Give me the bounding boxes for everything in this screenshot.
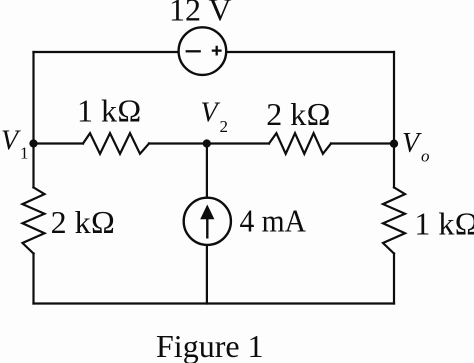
svg-text:2: 2 <box>220 117 229 136</box>
svg-text:o: o <box>421 146 430 165</box>
label Vo <box>402 128 430 165</box>
wire middle segment R2 to Vo <box>331 142 394 144</box>
node V2 <box>203 139 211 147</box>
voltage source VS1 12 V <box>179 27 227 75</box>
svg-text:12 V: 12 V <box>169 0 232 28</box>
resistor R3 2kOhm left vertical <box>23 187 45 253</box>
resistor R1 1kOhm horizontal <box>83 133 149 154</box>
label V2 <box>201 98 229 137</box>
wire left rail lower <box>32 254 34 304</box>
svg-text:4 mA: 4 mA <box>240 202 307 238</box>
svg-text:1 kΩ: 1 kΩ <box>414 205 474 241</box>
wire middle branch upper (V2 to current source) <box>206 144 208 197</box>
wire left rail mid (V1 to resistor) <box>32 144 34 188</box>
wire right rail lower <box>393 254 395 304</box>
node V1 <box>29 139 37 147</box>
wire top-left segment <box>34 51 178 53</box>
resistor R2 2kOhm horizontal <box>269 133 331 154</box>
wire top-right segment <box>227 51 394 53</box>
wire middle segment V2 to R2 <box>207 142 269 144</box>
resistor R4 1kOhm right vertical <box>383 187 405 253</box>
wire left rail upper (top corner to node V1) <box>32 52 34 144</box>
wire middle segment V1 to R1 <box>34 142 84 144</box>
label V1 <box>1 126 29 163</box>
wire bottom <box>34 302 395 304</box>
svg-text:2 kΩ: 2 kΩ <box>266 96 331 132</box>
svg-text:2 kΩ: 2 kΩ <box>51 204 116 240</box>
wire right rail upper (top corner to node Vo) <box>393 52 395 144</box>
svg-text:V: V <box>201 98 221 129</box>
current source IS1 4 mA <box>184 198 231 245</box>
wire middle segment R1 to V2 <box>149 142 207 144</box>
svg-text:1 kΩ: 1 kΩ <box>77 92 142 128</box>
svg-text:Figure 1: Figure 1 <box>156 328 264 363</box>
svg-text:V: V <box>1 126 21 157</box>
node Vo <box>390 140 398 148</box>
svg-text:V: V <box>402 128 422 159</box>
wire middle branch lower (current source to bottom wire) <box>206 246 208 304</box>
wire right rail mid (Vo to resistor) <box>393 144 395 188</box>
svg-text:1: 1 <box>20 144 29 163</box>
